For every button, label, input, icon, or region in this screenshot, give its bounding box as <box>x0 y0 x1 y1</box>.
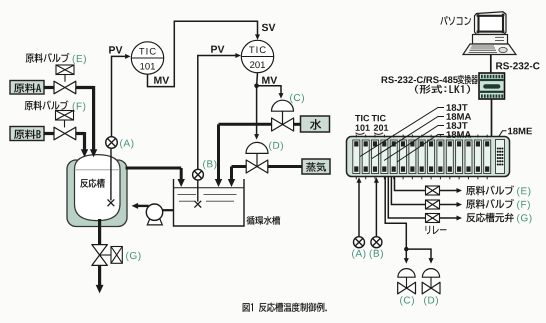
wire rack to valves C D <box>385 177 406 250</box>
temperature controller TIC201 <box>241 40 273 72</box>
control valve D body <box>246 160 268 173</box>
output label valve G <box>466 213 514 223</box>
PV label of TIC201 <box>211 46 224 53</box>
label raw-material valve F <box>25 101 69 111</box>
label A <box>120 139 133 148</box>
18ME label and pointer <box>499 131 507 136</box>
label G <box>126 252 140 261</box>
RS-232-C label <box>496 62 540 69</box>
pump discharge arrow into jacket <box>136 205 148 207</box>
label D <box>269 142 283 151</box>
pipe from tank bottom to valve G <box>98 219 101 245</box>
sensor B signal wire to TIC201 PV <box>198 56 238 170</box>
overflow pipe from reactor to circulation tank <box>126 167 182 170</box>
sensor A wire into rack <box>358 181 360 236</box>
personal computer icon <box>463 12 516 55</box>
solenoid actuator box G <box>111 247 122 264</box>
label B <box>203 160 216 169</box>
relay box 2 <box>426 200 440 209</box>
controller rack <box>347 137 510 177</box>
pipe from A through valve E into reactor <box>44 86 54 89</box>
sensor B wire into rack <box>375 181 377 236</box>
PV label of TIC101 <box>109 46 122 53</box>
sensor tip A in reactor <box>108 199 115 206</box>
label A wiring side <box>352 250 365 259</box>
relay box 1 <box>426 186 440 195</box>
relay label <box>426 226 447 234</box>
pump <box>147 219 162 225</box>
MV label of TIC101 <box>154 77 169 84</box>
valve E body <box>54 81 76 94</box>
SV label of TIC201 <box>262 24 276 31</box>
raw material B box <box>10 127 44 141</box>
circulation water tank <box>174 179 245 226</box>
label C wiring side <box>400 296 414 305</box>
control valve C wiring side <box>398 269 415 278</box>
communication module 18ME <box>496 140 505 174</box>
arrow relay3 to valve G label <box>440 217 459 219</box>
temperature controller TIC101 <box>131 42 163 74</box>
module labels 18JT 18MA pointers <box>360 108 444 157</box>
wire rack to relay 1 <box>395 177 426 191</box>
label raw-material valve E <box>26 53 70 63</box>
arrow relay1 to valve E label <box>440 190 459 192</box>
label C <box>290 94 304 103</box>
RS-232-C to RS-485 converter box <box>479 73 505 99</box>
output label valve F <box>466 199 514 209</box>
junction node at TIC201 MV split <box>254 84 259 89</box>
control valve C actuator dome <box>272 100 294 111</box>
water supply box <box>301 116 330 132</box>
output label valve E <box>466 186 514 196</box>
sensor ball A wiring side <box>354 237 365 248</box>
converter label <box>382 76 458 83</box>
circulation tank label <box>247 216 281 225</box>
sensor ball A <box>106 137 118 149</box>
figure caption <box>243 303 327 313</box>
junction node for valve wires <box>404 247 408 251</box>
reactor tank label <box>80 179 105 188</box>
valve F body <box>54 127 76 140</box>
raw material A box <box>10 81 44 95</box>
control valve C body <box>272 118 294 131</box>
drain pipe with arrow <box>98 265 101 287</box>
solenoid actuator box E <box>56 65 74 75</box>
MV label of TIC201 <box>262 77 277 84</box>
wire rack to relay 2 <box>391 177 425 205</box>
reactor jacket <box>67 160 127 227</box>
steam supply box <box>302 159 330 174</box>
rack plug-in modules <box>353 135 491 180</box>
label B wiring side <box>370 250 383 259</box>
steam pipe through valve D into circulation tank <box>268 165 302 168</box>
wire converter to rack 18ME <box>491 99 493 137</box>
temperature sensor A signal wire to TIC101 PV <box>112 56 128 137</box>
control valve D wiring side <box>422 269 439 278</box>
solenoid actuator box F <box>56 111 74 121</box>
sensor ball B <box>193 169 204 180</box>
cascade wire TIC101 MV to TIC201 SV <box>148 21 258 86</box>
water pipe through valve C into circulation tank <box>294 123 301 126</box>
wire PC to converter RS-232-C <box>490 55 492 73</box>
sensor ball B wiring side <box>371 237 382 248</box>
pipe from B through valve F into reactor <box>44 132 54 135</box>
valve G body <box>92 245 108 266</box>
label D wiring side <box>424 296 438 305</box>
rack slot labels TIC 101 and TIC 201 <box>355 115 369 121</box>
relay box 3 <box>426 214 440 223</box>
reactor vessel <box>75 155 121 221</box>
control valve D actuator dome <box>246 142 268 153</box>
sensor tip B in circulation tank <box>194 201 201 208</box>
MV wire from TIC201 to valves C and D <box>256 73 259 86</box>
arrow relay2 to valve F label <box>440 204 459 206</box>
pump suction line <box>163 209 174 211</box>
personal computer label <box>440 16 471 25</box>
wire rack to relay 3 <box>388 177 425 219</box>
